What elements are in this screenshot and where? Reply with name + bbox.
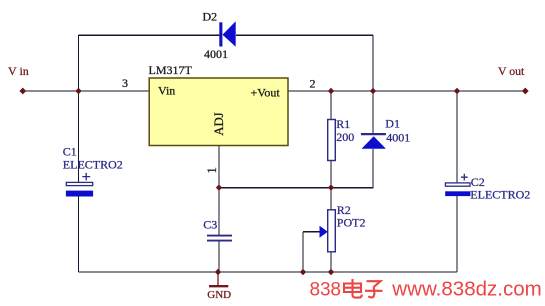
svg-text:200: 200: [336, 130, 354, 144]
svg-text:1: 1: [204, 167, 219, 174]
svg-text:838: 838: [310, 280, 342, 301]
svg-text:V out: V out: [498, 64, 525, 78]
svg-text:4001: 4001: [386, 130, 410, 144]
svg-text:D2: D2: [203, 9, 218, 23]
svg-text:4001: 4001: [204, 47, 228, 61]
svg-text:V in: V in: [8, 64, 29, 78]
svg-text:C3: C3: [203, 217, 217, 231]
svg-text:ADJ: ADJ: [212, 112, 226, 135]
svg-text:3: 3: [122, 76, 128, 90]
svg-text:2: 2: [310, 77, 316, 91]
svg-text:ELECTRO2: ELECTRO2: [470, 188, 530, 202]
svg-text:GND: GND: [207, 289, 231, 301]
svg-text:www.838dz.com: www.838dz.com: [391, 279, 542, 301]
svg-text:D1: D1: [385, 117, 400, 131]
svg-text:POT2: POT2: [337, 215, 366, 229]
svg-text:Vin: Vin: [158, 83, 175, 97]
svg-text:ELECTRO2: ELECTRO2: [63, 157, 123, 171]
svg-text:LM317T: LM317T: [149, 63, 193, 77]
svg-text:C1: C1: [63, 144, 77, 158]
svg-text:+Vout: +Vout: [251, 86, 281, 100]
